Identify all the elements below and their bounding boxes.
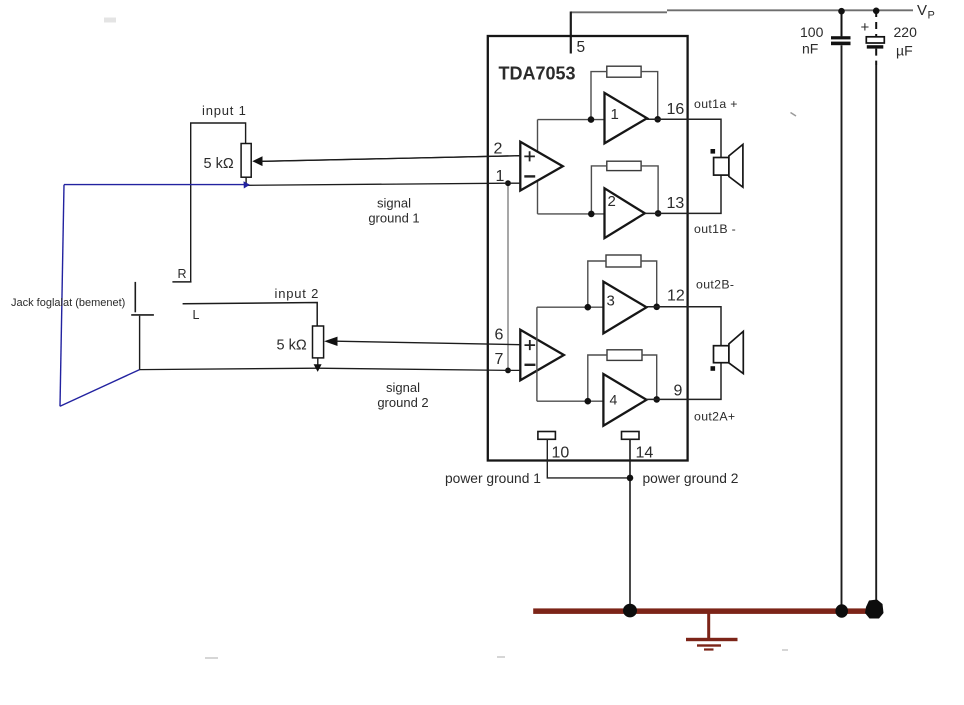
wire power ground 2 down to bus	[629, 439, 631, 605]
wire stage A input bus vertical	[537, 120, 539, 214]
op-amp 3	[603, 282, 646, 334]
wire pin 5 to rail	[570, 12, 572, 54]
ground symbol	[686, 613, 738, 651]
node op1 input	[588, 116, 595, 123]
label pin 12	[667, 288, 685, 305]
op-amp 1	[605, 93, 648, 143]
arrowhead at pot2 ground node	[314, 364, 322, 372]
potentiometer P1 5k	[241, 144, 251, 186]
svg-text:out2A+: out2A+	[694, 409, 735, 423]
node pin 7	[505, 368, 511, 374]
jack L contact / wire input 2	[183, 303, 318, 327]
wire pin 2 input	[262, 156, 521, 162]
wire signal ground 1	[246, 183, 521, 185]
label input 2	[275, 286, 320, 301]
svg-text:1: 1	[496, 168, 505, 185]
node blob 220uF on bus	[865, 600, 884, 619]
svg-text:µF: µF	[896, 43, 913, 59]
ground bus	[533, 608, 883, 614]
label 5 kOhm P2	[277, 338, 307, 354]
jack R contact	[172, 281, 191, 283]
svg-text:2: 2	[494, 141, 503, 158]
resistor R3 feedback op3	[588, 255, 657, 307]
svg-text:5: 5	[577, 39, 586, 56]
IC U1 TDA7053 box	[488, 36, 688, 461]
resistor R2 feedback op2	[591, 161, 658, 214]
label pin 5	[577, 39, 586, 56]
wire Vp top rail	[571, 10, 913, 12]
svg-text:+: +	[861, 19, 870, 36]
label pin 14	[636, 445, 654, 462]
jack sleeve contact	[131, 282, 154, 370]
node op3 input	[585, 304, 592, 311]
node op2 input	[588, 211, 595, 218]
wire jack blue left side	[60, 185, 64, 407]
svg-text:input 2: input 2	[275, 286, 320, 301]
svg-text:12: 12	[667, 288, 685, 305]
node on rail at 100nF	[838, 8, 845, 15]
svg-text:ground 1: ground 1	[368, 211, 419, 226]
label out1B -	[694, 222, 736, 236]
label Jack foglalat (bemenet)	[11, 297, 125, 309]
op-amp 2	[605, 188, 645, 238]
svg-text:signal: signal	[377, 196, 411, 211]
svg-text:7: 7	[495, 351, 504, 368]
wire op2 input horizontal	[538, 213, 605, 215]
blue arrowhead at pot1 ground node	[244, 181, 251, 188]
label input 1	[202, 103, 247, 118]
potentiometer P2 5k	[313, 326, 324, 368]
svg-text:6: 6	[495, 327, 504, 344]
label out2A+	[694, 409, 735, 423]
wire out1b from op2 to speaker	[645, 175, 722, 213]
polarity dot speaker LS1	[711, 149, 716, 154]
label VP	[917, 2, 935, 22]
speaker LS1	[714, 144, 743, 187]
wire op1 input horizontal	[538, 119, 605, 121]
label L	[193, 308, 200, 322]
label pin 9	[674, 383, 683, 400]
wire stage B input bus vertical	[536, 307, 538, 401]
svg-text:ground 2: ground 2	[377, 395, 428, 410]
wire pins 1-7 internal connector	[507, 183, 509, 370]
svg-text:9: 9	[674, 383, 683, 400]
speaker LS2	[714, 331, 744, 373]
label R	[178, 267, 187, 281]
capacitor C2 220uF electrolytic	[861, 10, 885, 602]
svg-text:5 kΩ: 5 kΩ	[204, 156, 234, 172]
scan artifact tick	[791, 113, 797, 117]
scan artifact dots bottom	[205, 650, 788, 658]
svg-text:R: R	[178, 267, 187, 281]
label signal ground 2	[377, 380, 428, 410]
svg-text:2: 2	[608, 193, 616, 210]
label power ground 2	[643, 471, 739, 486]
wire out2b from op3 to speaker	[646, 307, 721, 346]
node power ground junction	[627, 475, 634, 482]
svg-text:input 1: input 1	[202, 103, 247, 118]
svg-text:13: 13	[667, 195, 685, 212]
svg-text:220: 220	[894, 24, 918, 40]
label out1a +	[694, 97, 738, 111]
svg-text:nF: nF	[802, 41, 818, 57]
resistor R1 feedback op1	[591, 66, 658, 119]
svg-text:4: 4	[610, 392, 618, 408]
label out2B-	[696, 277, 734, 291]
node pin 1	[505, 180, 511, 186]
svg-text:10: 10	[552, 445, 570, 462]
svg-text:L: L	[193, 308, 200, 322]
node op4 input	[585, 398, 592, 405]
node blob power ground on bus	[623, 604, 637, 618]
svg-text:signal: signal	[386, 380, 420, 395]
svg-text:power ground 1: power ground 1	[445, 471, 541, 486]
label TDA7053	[499, 64, 576, 84]
wire jack blue top	[64, 184, 246, 186]
label pin 13	[667, 195, 685, 212]
wire signal ground 2	[140, 368, 521, 370]
wire op3 input horizontal	[537, 306, 604, 308]
wire out1a from op1 to speaker	[646, 119, 721, 157]
pad pin 14	[622, 432, 640, 440]
op-amp stage B	[520, 330, 564, 381]
label pin 6	[495, 327, 504, 344]
wire power ground 1	[547, 439, 630, 478]
svg-text:out1B -: out1B -	[694, 222, 736, 236]
wiper arrow P2	[324, 337, 520, 346]
label 5 kOhm P1	[204, 156, 234, 172]
resistor R4 feedback op4	[588, 350, 657, 401]
polarity dot speaker LS2	[711, 366, 716, 371]
label pin 7	[495, 351, 504, 368]
label signal ground 1	[368, 196, 419, 226]
node op2 output	[655, 210, 662, 217]
wiper arrow P1	[252, 156, 521, 166]
label 220 uF	[894, 24, 918, 59]
label pin 1	[496, 168, 505, 185]
svg-text:TDA7053: TDA7053	[499, 64, 576, 84]
svg-text:3: 3	[607, 293, 615, 310]
svg-text:P: P	[928, 10, 935, 22]
wire input 1 bracket	[191, 123, 246, 282]
svg-text:out2B-: out2B-	[696, 277, 734, 291]
svg-text:16: 16	[667, 101, 685, 118]
svg-text:5 kΩ: 5 kΩ	[277, 338, 307, 354]
svg-text:Jack foglalat (bemenet): Jack foglalat (bemenet)	[11, 297, 125, 309]
op-amp stage A	[520, 142, 563, 191]
wire op4 input horizontal	[537, 400, 604, 402]
node on rail at 220uF	[873, 8, 880, 15]
label pin 2	[494, 141, 503, 158]
op-amp 4	[603, 374, 646, 426]
label pin 16	[667, 101, 685, 118]
svg-text:14: 14	[636, 445, 654, 462]
wire jack blue diagonal	[60, 370, 140, 407]
label 100 nF	[800, 24, 824, 57]
wire out2a from op4 to speaker	[646, 363, 721, 400]
svg-text:100: 100	[800, 24, 824, 40]
svg-text:power ground 2: power ground 2	[643, 471, 739, 486]
capacitor C1 100nF	[831, 11, 851, 608]
svg-text:1: 1	[611, 106, 619, 123]
node blob 100nF on bus	[835, 604, 848, 618]
node op4 output	[653, 396, 660, 403]
svg-text:out1a +: out1a +	[694, 97, 738, 111]
node op1 output	[654, 116, 661, 123]
label pin 10	[552, 445, 570, 462]
svg-text:V: V	[917, 2, 927, 19]
pad pin 10	[538, 432, 556, 440]
node op3 output	[653, 304, 660, 311]
scan artifact smudge top-left	[104, 18, 116, 23]
label power ground 1	[445, 471, 541, 486]
